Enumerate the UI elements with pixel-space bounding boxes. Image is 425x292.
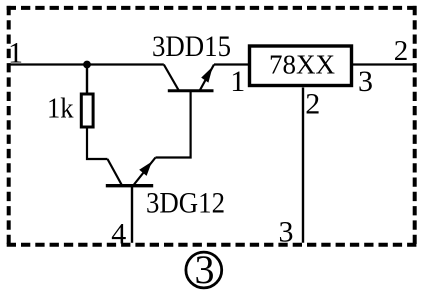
transistor Q1 3DD15 xyxy=(164,65,214,91)
resistor R1 xyxy=(81,94,93,127)
svg-text:1k: 1k xyxy=(47,92,74,124)
svg-text:3: 3 xyxy=(195,247,215,292)
module outline dashed border right xyxy=(413,6,417,247)
svg-text:3DD15: 3DD15 xyxy=(152,30,231,63)
module outline dashed border top xyxy=(7,6,417,10)
svg-text:2: 2 xyxy=(394,35,409,67)
module outline dashed border left xyxy=(7,6,11,247)
wire Q2 base to terminal 4 xyxy=(131,187,133,243)
svg-text:3: 3 xyxy=(358,65,373,98)
svg-text:1: 1 xyxy=(230,65,245,98)
regulator U1 78XX box xyxy=(250,46,352,86)
wire junction to R1 top xyxy=(86,65,88,94)
svg-text:2: 2 xyxy=(305,87,320,120)
wire U1 pin 2 to terminal 3 xyxy=(302,88,304,243)
transistor Q2 3DG12 xyxy=(106,158,156,186)
svg-text:3: 3 xyxy=(279,215,294,248)
wire U1 pin 3 to terminal 2 xyxy=(353,63,414,65)
svg-text:4: 4 xyxy=(111,217,126,250)
wire Q1 emitter to U1 pin 1 xyxy=(214,63,248,65)
wire R1 bottom to Q2 collector xyxy=(87,127,108,159)
node junction dot xyxy=(83,61,91,69)
wire terminal 1 to Q1 collector xyxy=(9,63,164,65)
svg-text:3DG12: 3DG12 xyxy=(146,187,225,220)
svg-text:78XX: 78XX xyxy=(269,50,335,80)
wire Q2 emitter to Q1 base xyxy=(156,92,191,158)
module outline dashed border bottom xyxy=(7,243,417,247)
figure number circled 3 xyxy=(186,247,222,292)
